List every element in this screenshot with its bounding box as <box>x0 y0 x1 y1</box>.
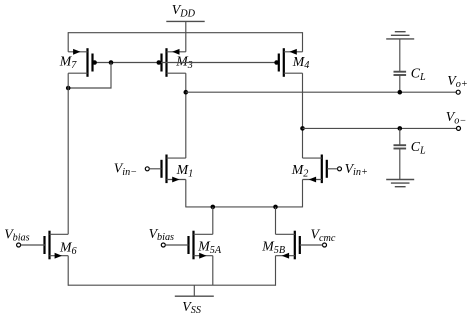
wire output Vo- line <box>303 127 457 129</box>
wire VDD horizontal rail <box>68 32 302 34</box>
transistor M7 <box>68 48 92 77</box>
wire M7 drain down to M6 <box>67 73 69 234</box>
wire M4 drain down to M2 <box>302 73 304 158</box>
node junction M7 drain <box>66 86 71 91</box>
wire M5A drain up <box>212 207 214 234</box>
capacitor CL1 <box>394 72 407 75</box>
transistor M5B <box>276 231 300 260</box>
transistor M4 <box>279 48 303 77</box>
wire M5A gate lead <box>165 244 188 246</box>
transistor M3 <box>162 48 186 77</box>
terminal M5B gate Vcmc <box>323 243 327 247</box>
node junction tail M5B <box>273 205 278 210</box>
wire Vo- node to CL2 <box>399 128 401 144</box>
wire output Vo+ line <box>186 91 457 93</box>
capacitor CL2 <box>394 145 407 148</box>
power rail VSS bar <box>175 295 214 297</box>
power rail VDD bar <box>166 20 204 22</box>
wire M6 source down <box>67 256 69 286</box>
wire VDD rail right drop to M4 <box>302 32 304 52</box>
terminal Vo- <box>457 126 461 130</box>
wire M1 source down <box>185 180 187 208</box>
node junction CL1 <box>398 90 403 95</box>
wire M5B source down <box>275 256 277 286</box>
wire M6 gate lead <box>21 244 45 246</box>
terminal Vin+ <box>338 167 342 171</box>
transistor M1 <box>162 155 186 184</box>
node junction tail M5A <box>211 205 216 210</box>
ground top (for CL1) <box>386 32 414 39</box>
wire M5B gate lead <box>300 244 323 246</box>
wire ground to CL1 <box>399 39 401 71</box>
wire M2 source down <box>302 180 304 208</box>
node junction M3 gate <box>157 60 162 65</box>
wire VDD rail left drop to M7 <box>67 32 69 52</box>
wire CL2 to ground <box>399 149 401 180</box>
wire tail node line <box>186 206 303 208</box>
wire M5A source down <box>212 256 214 286</box>
node junction diode tap <box>109 60 114 65</box>
wire gate bus M7-M3-M4 <box>93 62 277 64</box>
node junction CL2 <box>398 126 403 131</box>
transistor M6 <box>45 231 69 260</box>
wire M1 gate lead <box>149 168 161 170</box>
terminal M5A gate Vbias <box>161 243 165 247</box>
terminal Vo+ <box>456 90 460 94</box>
ground bottom (for CL2) <box>386 180 414 187</box>
wire M5B drain up <box>275 207 277 234</box>
wire M2 gate lead <box>327 168 337 170</box>
wire VSS stub <box>193 285 195 296</box>
transistor M2 <box>303 155 327 184</box>
node junction output o- <box>300 126 305 131</box>
node junction output o+ <box>184 90 189 95</box>
node junction M7 gate <box>92 60 97 65</box>
wire M3 drain down to output node <box>185 73 187 158</box>
wire VSS rail <box>68 284 275 286</box>
wire M7 diode connection <box>68 63 111 89</box>
node junction M4 gate <box>274 60 279 65</box>
terminal M6 gate Vbias <box>17 243 21 247</box>
wire VDD stub down to M3 source <box>185 21 187 51</box>
wire CL1 to Vo+ node <box>399 75 401 92</box>
transistor M5A <box>189 231 213 260</box>
terminal Vin- <box>145 167 149 171</box>
